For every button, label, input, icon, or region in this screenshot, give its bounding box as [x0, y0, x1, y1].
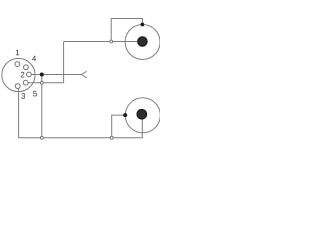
wire drop from junction A	[41, 75, 43, 138]
crossover hop bottom rail left	[40, 136, 43, 139]
RCA plug J3 tip contact	[137, 109, 147, 119]
wire shield path bottom RCA	[112, 115, 126, 138]
DIN pin 2	[27, 72, 32, 77]
RCA plug J2 body	[125, 25, 160, 60]
DIN-5 connector body J1	[2, 58, 35, 91]
crossover hop bottom rail right	[110, 136, 113, 139]
junction dot shield J3	[123, 113, 127, 117]
wire shield path top RCA	[111, 19, 142, 42]
pin label 4	[32, 56, 36, 62]
pin label 2	[21, 72, 25, 78]
crossover hop on top rail	[110, 40, 113, 43]
wire pin5 horizontal	[28, 82, 64, 84]
wire top signal rail to RCA J2 tip	[64, 41, 140, 43]
DIN pin 1	[15, 62, 20, 67]
junction dot shield J2	[141, 23, 145, 27]
pin label 1	[16, 50, 19, 56]
wire pin3 down	[18, 88, 20, 137]
crossover hop on pin5 wire	[40, 81, 43, 84]
cable split fork	[82, 71, 87, 78]
DIN pin 5	[23, 80, 28, 85]
pin label 3	[21, 93, 25, 99]
DIN pin 3	[15, 84, 20, 89]
RCA plug J3 body	[125, 98, 160, 133]
pin label 5	[33, 91, 37, 97]
wire bottom signal rail to RCA J3 tip	[19, 114, 143, 137]
RCA plug J2 tip contact	[138, 37, 147, 46]
wire riser pin5 to top rail	[63, 42, 65, 83]
DIN pin 4	[24, 65, 29, 70]
junction dot A on pin2 wire	[40, 73, 44, 77]
wire pin2 to cable split	[31, 74, 81, 76]
